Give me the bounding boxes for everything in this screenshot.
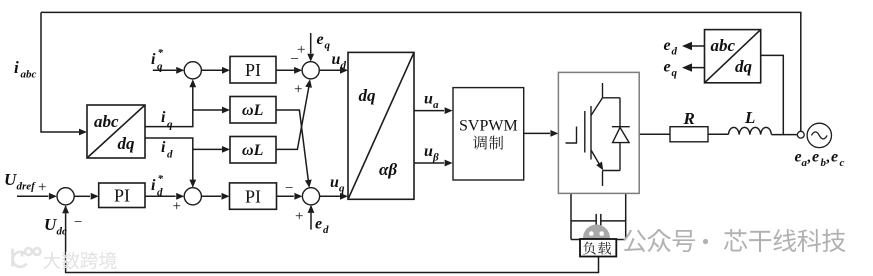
svg-text:PI: PI: [245, 60, 261, 80]
wire converter bottom right leg: [625, 193, 627, 239]
wire SVPWM to converter: [524, 132, 550, 134]
svg-text:i: i: [151, 177, 156, 194]
block PI3: [230, 183, 277, 209]
svg-text:dref: dref: [17, 181, 37, 193]
svg-text:+: +: [38, 180, 46, 196]
label tiaozhi (modulation): [473, 136, 487, 150]
block PI2: [99, 183, 145, 208]
svg-text:q: q: [339, 183, 345, 195]
svg-text:e: e: [664, 37, 671, 54]
svg-text:PI: PI: [245, 187, 261, 207]
svg-text:q: q: [157, 61, 163, 73]
svg-text:dq: dq: [735, 57, 753, 76]
svg-text:i: i: [161, 109, 166, 126]
svg-text:e: e: [812, 149, 819, 166]
watermark decorative icon: [583, 225, 610, 252]
watermark dashukuajing logo: [13, 248, 41, 267]
wire u_q sum5 to dq block: [320, 195, 340, 197]
svg-text:abc: abc: [711, 36, 736, 55]
block abc/dq right (emf measurement): [705, 30, 761, 83]
wire omegaL2 cross-coupling diagonal to sum2: [276, 86, 309, 149]
svg-text:dq: dq: [359, 86, 377, 105]
svg-text:c: c: [840, 157, 845, 169]
svg-text:+: +: [173, 199, 181, 215]
wire e_q measurement arrow line: [686, 67, 705, 69]
svg-text:ωL: ωL: [242, 142, 264, 159]
summing junction sum2 (u_d): [302, 62, 319, 79]
svg-text:e: e: [831, 149, 838, 166]
wire R to inductor: [708, 133, 728, 135]
diode D1 (anti-parallel): [612, 98, 630, 171]
wire iq* input: [153, 69, 176, 71]
wire load to bottom feedback: [66, 206, 599, 273]
svg-text:*: *: [158, 47, 164, 59]
block SVPWM modulator: [453, 88, 524, 180]
svg-text:*: *: [158, 173, 164, 185]
wire u_a dq block to SVPWM: [414, 110, 444, 112]
wire sum3 to PI2: [74, 195, 90, 197]
watermark dashukuajing text: [43, 252, 60, 269]
svg-text:abc: abc: [21, 69, 37, 81]
capacitor C leads: [571, 220, 596, 222]
svg-text:dc: dc: [57, 226, 68, 238]
wire inductor to node: [771, 134, 797, 136]
svg-text:u: u: [424, 143, 433, 160]
svg-text:dq: dq: [118, 134, 136, 153]
svg-text:abc: abc: [94, 112, 119, 131]
svg-text:q: q: [672, 67, 678, 79]
block dq/alphabeta inverse transform: [348, 52, 414, 199]
svg-text:e: e: [317, 31, 324, 48]
svg-text:d: d: [167, 149, 173, 161]
svg-text:i: i: [14, 58, 19, 77]
block omegaL1: [230, 97, 276, 124]
svg-text:a: a: [433, 99, 439, 111]
svg-text:e: e: [664, 59, 671, 76]
svg-text:u: u: [330, 174, 339, 191]
svg-text:−: −: [285, 181, 293, 197]
inductor L coils: [728, 127, 771, 134]
svg-text:αβ: αβ: [379, 160, 397, 179]
svg-text:,: ,: [826, 150, 830, 166]
wire u_d sum2 to dq block: [319, 69, 340, 71]
wire left drop into abc/dq: [41, 12, 79, 132]
wire e_q into sum2: [310, 33, 312, 54]
wire U_dref input: [17, 195, 48, 197]
wire PI2 to sum4: [145, 195, 176, 197]
svg-text:−: −: [291, 52, 299, 68]
summing junction sum1 (iq* - iq): [184, 62, 201, 79]
svg-text:i: i: [151, 51, 156, 68]
svg-text:q: q: [167, 119, 173, 131]
summing junction sum5 (u_q): [302, 188, 319, 205]
load block (fuzai): [580, 239, 616, 257]
wire i_d from abc/dq down to sum4: [145, 138, 193, 187]
node junction (PCC): [797, 131, 804, 138]
wire e_d into sum5: [310, 206, 312, 229]
wire PI1 to sum2: [276, 69, 294, 71]
wire abc/dq right block output down to AC bus: [761, 55, 784, 134]
svg-text:ωL: ωL: [242, 102, 264, 119]
wire sum1 to PI1: [201, 69, 222, 71]
wire sum4 to PI3: [201, 195, 221, 197]
wire u_beta dq block to SVPWM: [414, 162, 444, 164]
svg-text:U: U: [4, 170, 17, 189]
wire i_q from abc/dq to sum1: [145, 81, 193, 127]
svg-text:e: e: [315, 216, 322, 233]
wire omegaL1 cross-coupling diagonal to sum5: [276, 110, 308, 181]
wire branch i_d to omegaL2: [193, 148, 222, 150]
AC source G1: [807, 123, 831, 147]
wire across load top: [571, 239, 626, 241]
svg-text:u: u: [424, 91, 433, 108]
svg-text:β: β: [432, 152, 439, 164]
svg-text:,: ,: [807, 150, 811, 166]
arrowheads: [79, 129, 87, 136]
block omegaL2: [230, 137, 276, 164]
svg-text:R: R: [683, 109, 695, 128]
capacitor C plates: [595, 214, 597, 228]
svg-text:d: d: [157, 187, 163, 199]
wire PI3 to sum5: [277, 195, 294, 197]
wire top feedback i_abc: [41, 12, 801, 131]
svg-text:SVPWM: SVPWM: [459, 118, 518, 135]
svg-text:+: +: [294, 82, 302, 98]
block converter bridge: [558, 72, 639, 193]
block PI1: [230, 56, 276, 83]
wire e_d measurement arrow line: [686, 45, 705, 47]
svg-text:U: U: [44, 215, 57, 234]
svg-text:d: d: [672, 46, 678, 58]
svg-text:i: i: [161, 139, 166, 156]
svg-text:d: d: [323, 224, 329, 236]
svg-text:q: q: [325, 40, 331, 52]
svg-text:+: +: [295, 209, 303, 225]
svg-text:d: d: [341, 60, 347, 72]
svg-text:u: u: [332, 51, 341, 68]
svg-text:L: L: [744, 108, 755, 127]
resistor R box: [670, 127, 708, 142]
svg-text:PI: PI: [114, 186, 130, 206]
summing junction sum3 (Udref - Udc): [57, 188, 74, 205]
watermark wechat text: [623, 230, 646, 252]
block abc/dq left (current transform): [87, 105, 145, 158]
wire converter bottom left leg: [570, 193, 572, 239]
summing junction sum4 (id* - id): [184, 188, 201, 205]
wire converter to R: [639, 133, 670, 135]
wire branch i_q to omegaL1: [193, 109, 222, 111]
svg-text:−: −: [74, 215, 82, 231]
transistor IGBT Q1: [566, 83, 621, 186]
